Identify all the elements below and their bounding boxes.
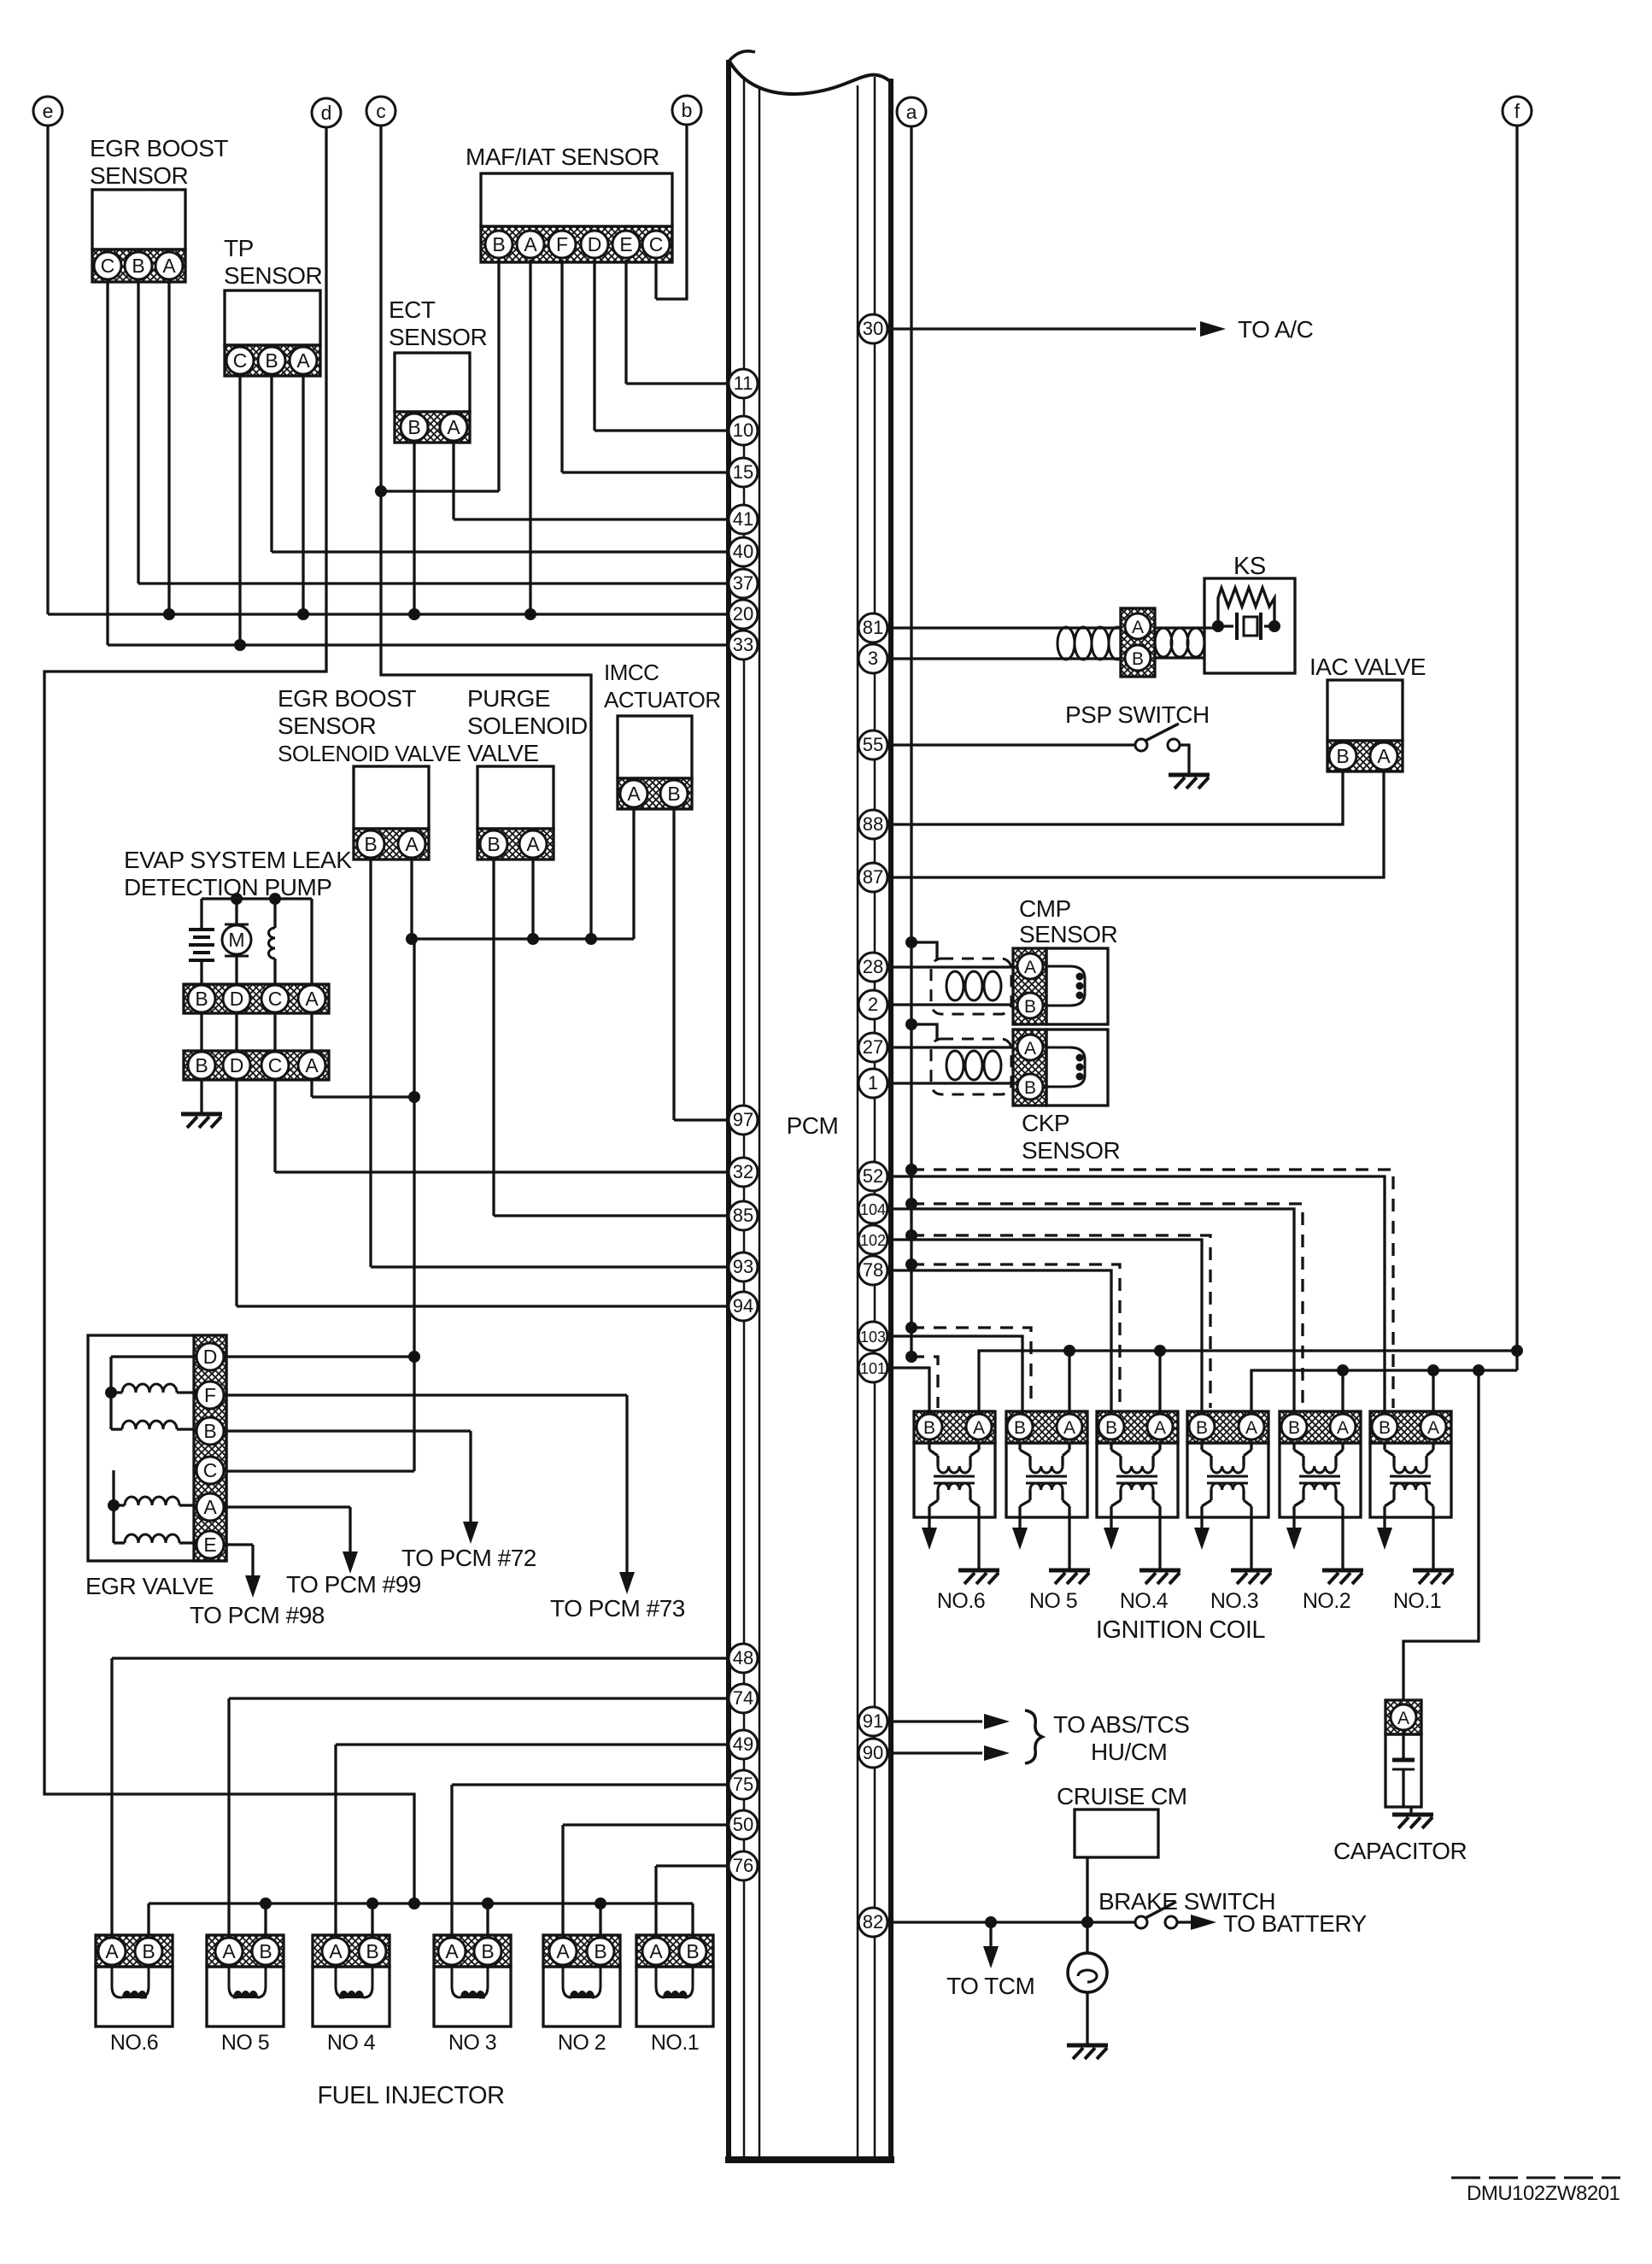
- svg-text:TO PCM #98: TO PCM #98: [190, 1602, 325, 1628]
- svg-text:PURGE: PURGE: [467, 685, 550, 712]
- EVAP pump connector row 1: [184, 984, 329, 1013]
- svg-text:B: B: [686, 1940, 699, 1962]
- svg-text:EGR BOOST: EGR BOOST: [90, 135, 228, 161]
- svg-text:CKP: CKP: [1022, 1110, 1069, 1136]
- shield (dashed) for pin 101: [905, 1351, 917, 1363]
- brake switch: [1135, 1902, 1191, 1928]
- wire ECT B to ground wire 20: [413, 443, 415, 614]
- wire pin 82 brake switch: [891, 1921, 1135, 1923]
- svg-text:A: A: [405, 833, 419, 855]
- svg-text:88: 88: [863, 813, 883, 835]
- svg-text:94: 94: [733, 1295, 753, 1317]
- svg-text:103: 103: [860, 1328, 886, 1346]
- svg-text:B: B: [203, 1420, 216, 1442]
- wire pin 75 to injector 3: [452, 1783, 729, 1786]
- svg-text:A: A: [1377, 745, 1391, 767]
- svg-text:93: 93: [733, 1256, 753, 1277]
- cruise control module: [1075, 1809, 1158, 1857]
- svg-text:11: 11: [734, 372, 753, 394]
- wire IMCC B to pin 97: [672, 809, 675, 1120]
- wire EGR solenoid A to supply junction: [410, 859, 413, 939]
- purge solenoid valve: [477, 766, 554, 859]
- ground stop lamp: [1067, 2044, 1108, 2048]
- shield (dashed) for pin 78: [905, 1258, 917, 1270]
- wire pin 97: [674, 1118, 729, 1121]
- svg-text:CRUISE CM: CRUISE CM: [1057, 1783, 1187, 1809]
- wire pin 94: [237, 1305, 729, 1307]
- svg-text:74: 74: [733, 1687, 753, 1709]
- wire EGR valve E to PCM 98: [224, 1543, 253, 1546]
- ground ignition coil NO.2: [1341, 1517, 1344, 1569]
- svg-text:TO A/C: TO A/C: [1238, 316, 1314, 343]
- wire MAF B to node c: [497, 260, 500, 491]
- wire MAF E to pin 11: [624, 260, 627, 384]
- svg-text:D: D: [203, 1346, 218, 1368]
- svg-text:A: A: [447, 416, 460, 438]
- svg-text:55: 55: [863, 734, 883, 755]
- svg-text:32: 32: [733, 1161, 753, 1182]
- ground ignition coil NO.4: [1158, 1517, 1161, 1569]
- svg-text:A: A: [329, 1940, 343, 1962]
- svg-text:27: 27: [863, 1036, 883, 1058]
- svg-text:C: C: [233, 349, 248, 372]
- svg-text:78: 78: [863, 1259, 883, 1281]
- wire pin 76 to injector 1: [656, 1864, 729, 1867]
- svg-text:NO.1: NO.1: [1393, 1589, 1441, 1613]
- wire EVAP B to ground: [200, 1080, 202, 1112]
- node e (page connector): [33, 97, 62, 126]
- svg-text:NO 2: NO 2: [558, 2031, 606, 2055]
- svg-text:A: A: [973, 1418, 985, 1438]
- PCM right connector pins: [858, 314, 888, 1937]
- ignition coil NO.1 trigger arrow: [1383, 1517, 1385, 1529]
- svg-text:NO 5: NO 5: [221, 2031, 269, 2055]
- svg-text:B: B: [923, 1418, 935, 1438]
- EGR valve upper windings: [105, 1357, 196, 1429]
- svg-text:d: d: [321, 102, 332, 124]
- CMP shield (dashed): [931, 959, 1011, 1014]
- svg-text:IGNITION COIL: IGNITION COIL: [1096, 1616, 1266, 1644]
- EVAP pump coil: [269, 928, 276, 984]
- svg-text:B: B: [259, 1940, 272, 1962]
- CKP sensor: [1013, 1029, 1108, 1106]
- svg-text:A: A: [524, 233, 537, 255]
- node d (page connector): [312, 98, 341, 127]
- wire pin 91 to ABS/TCS: [891, 1720, 982, 1722]
- svg-text:90: 90: [863, 1742, 883, 1763]
- wire pin 2 to CMP B: [891, 1003, 1015, 1006]
- EVAP pump internal supply bar: [202, 897, 312, 900]
- fuel injector NO 5: [207, 1935, 284, 2026]
- ignition coil NO.3 trigger arrow: [1200, 1517, 1203, 1529]
- svg-text:A: A: [105, 1940, 119, 1962]
- node f (page connector): [1503, 97, 1532, 126]
- svg-text:NO 4: NO 4: [327, 2031, 376, 2055]
- svg-text:A: A: [296, 349, 310, 372]
- svg-text:ACTUATOR: ACTUATOR: [604, 687, 721, 713]
- CMP twisted pair: [946, 971, 1001, 1000]
- svg-text:49: 49: [733, 1733, 753, 1755]
- svg-text:SENSOR: SENSOR: [1022, 1137, 1120, 1164]
- twisted pair to KS: [1057, 627, 1126, 660]
- ignition coil NO 5: [1006, 1411, 1087, 1517]
- svg-text:NO.3: NO.3: [1210, 1589, 1258, 1613]
- wire EGR boost sensor B to pin 37: [137, 281, 139, 584]
- wire pin 101 to ignition coil: [891, 1368, 929, 1411]
- fuel injector NO 3: [434, 1935, 511, 2026]
- svg-text:NO.6: NO.6: [937, 1589, 985, 1613]
- wire capacitor feed: [1403, 1370, 1479, 1700]
- svg-text:A: A: [627, 783, 641, 805]
- wire pin 37: [138, 582, 729, 584]
- ignition coil NO.6: [914, 1411, 995, 1517]
- wire pin 3 knock sensor: [891, 657, 1059, 660]
- wire IAC A to pin 87: [891, 771, 1384, 877]
- svg-text:A: A: [556, 1940, 570, 1962]
- svg-text:B: B: [1024, 997, 1036, 1017]
- wire pin 48 to injector 6: [112, 1657, 729, 1659]
- wire pin 55 PSP switch: [891, 743, 1135, 746]
- EVAP pump filter element: [189, 930, 214, 984]
- svg-text:e: e: [43, 100, 54, 122]
- svg-text:15: 15: [733, 461, 753, 483]
- CMP sensor: [1013, 948, 1108, 1024]
- svg-text:B: B: [132, 255, 144, 277]
- fuel injector NO.1: [636, 1935, 713, 2026]
- svg-text:A: A: [203, 1496, 217, 1518]
- ignition coil NO.3: [1187, 1411, 1268, 1517]
- svg-text:B: B: [1336, 745, 1349, 767]
- wire injector supply rail: [149, 1902, 693, 1904]
- svg-text:TP: TP: [224, 235, 254, 261]
- svg-text:97: 97: [733, 1109, 753, 1130]
- svg-text:SENSOR: SENSOR: [224, 262, 322, 289]
- CMP shield drain: [905, 936, 917, 948]
- svg-text:37: 37: [733, 572, 753, 594]
- wire EVAP D to pin 94: [235, 1080, 237, 1306]
- IAC valve: [1327, 680, 1403, 771]
- svg-text:33: 33: [733, 634, 753, 655]
- node a (page connector): [897, 97, 926, 126]
- wire supply rail down-left branch: [413, 939, 415, 1471]
- svg-text:48: 48: [733, 1647, 753, 1669]
- svg-text:76: 76: [733, 1855, 753, 1876]
- svg-text:IMCC: IMCC: [604, 660, 659, 685]
- svg-text:E: E: [203, 1534, 216, 1556]
- svg-text:104: 104: [860, 1201, 886, 1218]
- wire EVAP A to supply: [310, 1080, 313, 1097]
- svg-text:NO.1: NO.1: [651, 2031, 699, 2055]
- svg-text:B: B: [594, 1940, 606, 1962]
- wire EGR solenoid B to pin 93: [369, 859, 372, 1267]
- KS shield connector: [1121, 608, 1155, 677]
- wire pin 78 to ignition coil: [891, 1270, 1111, 1411]
- CKP shield drain: [905, 1018, 917, 1030]
- svg-text:A: A: [1132, 618, 1144, 637]
- svg-text:CMP: CMP: [1019, 895, 1071, 922]
- svg-text:B: B: [1024, 1078, 1036, 1098]
- wire ignition supply rail H2: [1251, 1370, 1517, 1411]
- svg-text:A: A: [1154, 1418, 1166, 1438]
- svg-text:B: B: [1105, 1418, 1117, 1438]
- wire node b to MAF C: [656, 125, 687, 299]
- ground ignition coil NO 5: [1068, 1517, 1070, 1569]
- MAF/IAT sensor: [481, 173, 672, 262]
- svg-text:F: F: [556, 233, 568, 255]
- svg-text:A: A: [445, 1940, 459, 1962]
- svg-text:TO ABS/TCS: TO ABS/TCS: [1053, 1711, 1189, 1738]
- wire EVAP C to pin 32: [273, 1080, 276, 1172]
- svg-text:1: 1: [868, 1072, 878, 1094]
- svg-text:52: 52: [863, 1165, 883, 1187]
- svg-text:B: B: [265, 349, 278, 372]
- stop lamp: [1068, 1922, 1107, 2044]
- svg-text:b: b: [682, 99, 693, 121]
- svg-text:DETECTION PUMP: DETECTION PUMP: [124, 874, 331, 900]
- svg-text:20: 20: [733, 603, 753, 625]
- svg-text:B: B: [195, 1054, 208, 1076]
- CKP shield (dashed): [931, 1039, 1011, 1094]
- PCM module body: [725, 51, 894, 2160]
- node b (page connector): [672, 96, 701, 125]
- wire pin 27 to CKP A: [891, 1046, 1015, 1048]
- svg-text:c: c: [376, 100, 386, 122]
- wire MAF D to pin 10: [593, 260, 595, 431]
- node c (page connector): [366, 97, 395, 126]
- svg-text:87: 87: [863, 866, 883, 888]
- wire pin 52 to ignition coil: [891, 1176, 1385, 1411]
- wire EGR boost sensor C to pin 33: [106, 281, 108, 645]
- svg-text:B: B: [492, 233, 505, 255]
- EGR boost sensor: [92, 190, 185, 282]
- wire pin 104 to ignition coil: [891, 1209, 1294, 1411]
- wire IMCC A to supply wire: [632, 809, 635, 939]
- EVAP pump motor M: [222, 924, 251, 984]
- wire pin 81 knock sensor: [891, 626, 1059, 629]
- wire pin 32: [275, 1170, 729, 1173]
- svg-text:3: 3: [868, 648, 878, 669]
- ignition coil NO.4 trigger arrow: [1110, 1517, 1112, 1529]
- svg-text:30: 30: [863, 318, 883, 339]
- brace: [1025, 1710, 1042, 1763]
- ignition coil NO 5 trigger arrow: [1018, 1517, 1021, 1529]
- svg-text:101: 101: [860, 1360, 886, 1377]
- wire node a shield drain vertical: [910, 126, 912, 1357]
- wire MAF A to ground wire 20: [529, 260, 531, 614]
- wire solenoid supply rail: [412, 937, 634, 940]
- ignition coil NO.2: [1280, 1411, 1361, 1517]
- svg-text:B: B: [487, 833, 500, 855]
- wire node c supply: down to solenoid feed: [381, 126, 591, 939]
- svg-text:85: 85: [733, 1205, 753, 1226]
- svg-text:MAF/IAT SENSOR: MAF/IAT SENSOR: [466, 144, 659, 170]
- wire pin 30 to A/C: [891, 327, 1196, 330]
- svg-text:B: B: [1196, 1418, 1208, 1438]
- PSP switch: [1135, 724, 1189, 773]
- shield (dashed) for pin 104: [905, 1198, 917, 1210]
- wire TP B to pin 40: [270, 376, 272, 552]
- svg-text:PCM: PCM: [787, 1112, 839, 1139]
- svg-text:A: A: [526, 833, 540, 855]
- svg-text:D: D: [230, 1054, 244, 1076]
- wire EGR boost sensor A to ground wire 20: [167, 281, 170, 614]
- ignition coil NO.1: [1370, 1411, 1451, 1517]
- svg-text:FUEL INJECTOR: FUEL INJECTOR: [317, 2082, 504, 2109]
- svg-text:C: C: [268, 1054, 283, 1076]
- svg-text:a: a: [906, 101, 917, 123]
- svg-text:B: B: [1379, 1418, 1391, 1438]
- svg-text:NO 3: NO 3: [448, 2031, 496, 2055]
- wire MAF F to pin 15: [560, 260, 563, 472]
- svg-text:A: A: [1024, 958, 1036, 977]
- svg-text:TO PCM #73: TO PCM #73: [550, 1595, 685, 1622]
- svg-text:NO.2: NO.2: [1303, 1589, 1350, 1613]
- svg-text:ECT: ECT: [389, 296, 436, 323]
- svg-text:A: A: [305, 988, 319, 1010]
- wire pin 102 to ignition coil: [891, 1240, 1202, 1411]
- twisted pair into KS: [1155, 628, 1218, 658]
- wire MAF C to node b: [654, 260, 657, 299]
- svg-text:HU/CM: HU/CM: [1091, 1739, 1167, 1765]
- svg-text:A: A: [649, 1940, 663, 1962]
- wire pin 1 to CKP B: [891, 1082, 1015, 1084]
- CKP twisted pair: [946, 1051, 1001, 1080]
- TP sensor: [225, 290, 320, 376]
- svg-text:DMU102ZW8201: DMU102ZW8201: [1467, 2182, 1620, 2205]
- IMCC actuator: [618, 716, 692, 809]
- svg-text:SENSOR: SENSOR: [278, 713, 376, 739]
- svg-text:TO TCM: TO TCM: [946, 1973, 1034, 1999]
- svg-text:102: 102: [860, 1232, 886, 1249]
- arrow TO TCM: [989, 1922, 992, 1948]
- svg-text:PSP SWITCH: PSP SWITCH: [1065, 701, 1210, 728]
- EGR valve lower windings: [108, 1470, 196, 1543]
- svg-text:SENSOR: SENSOR: [90, 162, 188, 189]
- wire pin 85: [494, 1214, 729, 1217]
- wire cruise CM to brake switch wire: [1086, 1857, 1088, 1922]
- wire node e to sensor-ground wire 20: [46, 126, 49, 614]
- svg-text:A: A: [1397, 1709, 1409, 1728]
- svg-text:C: C: [203, 1459, 218, 1481]
- wire purge solenoid A to supply wire: [531, 859, 534, 939]
- PCM left connector pins: [729, 369, 758, 1880]
- svg-text:IAC VALVE: IAC VALVE: [1309, 654, 1426, 680]
- wire pin 28 to CMP A: [891, 965, 1015, 968]
- wire pin 15: [562, 471, 729, 473]
- wire node f ignition supply vertical: [1515, 126, 1518, 1370]
- svg-text:B: B: [195, 988, 208, 1010]
- svg-text:TO PCM #72: TO PCM #72: [401, 1545, 536, 1571]
- svg-text:f: f: [1514, 100, 1520, 122]
- wire EGR valve B to PCM 72: [224, 1429, 471, 1432]
- wire ECT A to pin 41: [452, 443, 454, 519]
- wire pin 33: [108, 643, 729, 646]
- svg-text:E: E: [619, 233, 632, 255]
- ground ignition coil NO.6: [977, 1517, 980, 1569]
- document number rule: [1451, 2177, 1620, 2179]
- ignition coil NO.4: [1097, 1411, 1178, 1517]
- shield (dashed) for pin 103: [905, 1322, 917, 1334]
- svg-text:B: B: [1132, 649, 1144, 669]
- svg-text:40: 40: [733, 541, 753, 562]
- wire pin 20 sensor ground: [48, 613, 729, 615]
- svg-text:28: 28: [863, 956, 883, 977]
- svg-text:10: 10: [733, 419, 753, 441]
- svg-text:A: A: [1337, 1418, 1349, 1438]
- svg-text:A: A: [305, 1054, 319, 1076]
- wire pin 90 to ABS/TCS: [891, 1751, 982, 1754]
- ground ignition coil NO.1: [1432, 1517, 1434, 1569]
- EGR valve connector strip: [194, 1335, 226, 1561]
- svg-text:A: A: [162, 255, 176, 277]
- svg-text:A: A: [1245, 1418, 1257, 1438]
- wire pin 49 to injector 4: [336, 1743, 729, 1745]
- wire pin 93: [371, 1265, 729, 1268]
- svg-text:CAPACITOR: CAPACITOR: [1333, 1838, 1467, 1864]
- wire pin 41: [454, 518, 729, 520]
- svg-text:B: B: [364, 833, 377, 855]
- svg-text:41: 41: [733, 508, 753, 530]
- wire pin 50 to injector 2: [563, 1823, 729, 1826]
- svg-text:D: D: [588, 233, 602, 255]
- svg-text:EVAP SYSTEM LEAK: EVAP SYSTEM LEAK: [124, 847, 352, 873]
- wire pin 40: [272, 550, 729, 553]
- wire pin 10: [595, 429, 729, 431]
- fuel injector NO 2: [543, 1935, 620, 2026]
- svg-text:A: A: [1024, 1039, 1036, 1059]
- svg-text:B: B: [481, 1940, 494, 1962]
- wire TP A to ground wire 20: [302, 376, 304, 614]
- shield (dashed) for pin 52: [905, 1164, 917, 1176]
- svg-text:2: 2: [868, 994, 878, 1015]
- svg-text:B: B: [667, 783, 680, 805]
- svg-text:82: 82: [863, 1911, 883, 1933]
- svg-text:81: 81: [863, 617, 883, 638]
- svg-text:VALVE: VALVE: [467, 740, 539, 766]
- svg-text:SOLENOID: SOLENOID: [467, 713, 588, 739]
- svg-text:TO PCM #99: TO PCM #99: [286, 1571, 421, 1598]
- svg-text:F: F: [204, 1384, 216, 1406]
- wire TP C to pin 33: [238, 376, 241, 645]
- svg-text:B: B: [142, 1940, 155, 1962]
- svg-text:C: C: [268, 988, 283, 1010]
- svg-text:SOLENOID VALVE: SOLENOID VALVE: [278, 741, 461, 766]
- wire ignition supply rail H1: [979, 1351, 1517, 1411]
- svg-text:75: 75: [733, 1774, 753, 1795]
- ground PSP switch: [1169, 773, 1210, 777]
- svg-text:B: B: [1014, 1418, 1026, 1438]
- wire EGR valve A to PCM 99: [224, 1505, 350, 1508]
- ECT sensor: [395, 353, 470, 443]
- wire pin 11: [626, 382, 729, 384]
- svg-text:B: B: [366, 1940, 378, 1962]
- wire IAC B to pin 88: [891, 771, 1343, 824]
- fuel injector NO.6: [96, 1935, 173, 2026]
- svg-text:SENSOR: SENSOR: [389, 324, 487, 350]
- capacitor: [1385, 1700, 1421, 1814]
- wire EGR valve F to PCM 73: [224, 1393, 627, 1396]
- ignition coil NO.2 trigger arrow: [1292, 1517, 1295, 1529]
- svg-text:A: A: [1063, 1418, 1075, 1438]
- shield (dashed) for pin 102: [905, 1229, 917, 1241]
- svg-text:EGR VALVE: EGR VALVE: [85, 1573, 214, 1599]
- svg-text:C: C: [101, 255, 115, 277]
- svg-text:C: C: [649, 233, 664, 255]
- svg-text:B: B: [407, 416, 420, 438]
- svg-text:KS: KS: [1233, 553, 1266, 580]
- svg-text:B: B: [1288, 1418, 1300, 1438]
- EVAP pump connector row 2: [184, 1051, 329, 1080]
